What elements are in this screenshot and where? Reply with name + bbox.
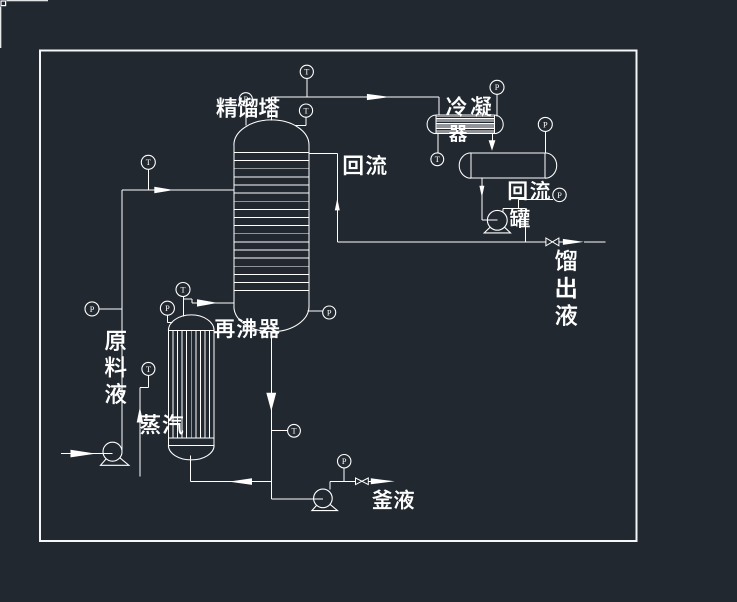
label 原料液 feed (105, 331, 127, 404)
wire: stem of column top P bubble (245, 106, 247, 126)
label 馏出液 distillate (555, 249, 577, 326)
svg-text:P: P (165, 304, 170, 313)
svg-text:T: T (180, 285, 185, 294)
instrument bubble P column bottom (323, 306, 336, 319)
wire: column bottom downcomer (271, 332, 323, 500)
arrow reflux up (335, 198, 340, 210)
svg-text:T: T (304, 68, 309, 77)
instrument bubble T downcomer (288, 424, 301, 437)
wire: steam supply line (140, 375, 149, 476)
label 回流 tank line1 (509, 181, 550, 201)
instrument bubble P column top (239, 93, 252, 106)
wire: condenser P bubble stem (496, 94, 498, 116)
instrument bubble P feed line (85, 302, 99, 316)
wire: reboiler vapor riser (182, 297, 184, 317)
wire: product P bubble lead (518, 200, 553, 209)
valve on distillate line (546, 238, 559, 246)
arrow steam up (137, 407, 143, 423)
svg-text:T: T (435, 155, 440, 164)
arrow distillate flow (563, 239, 584, 245)
wire: reflux pump suction stub (488, 219, 497, 221)
instrument bubble P condenser outlet (490, 80, 504, 94)
label 蒸汽 steam (140, 414, 183, 435)
distillation column vessel shell (234, 120, 309, 332)
instrument bubble T reboiler vapor (176, 283, 190, 297)
wire: bottoms discharge line (330, 481, 371, 489)
column weld seams and tray lines (234, 153, 309, 291)
wire: reboiler bottom outlet / circulation (191, 456, 272, 482)
wire: bottoms P bubble stem (343, 468, 345, 481)
label 回流 reflux (344, 155, 387, 176)
svg-text:P: P (543, 120, 548, 129)
wire: reboiler P bubble lead (167, 315, 172, 323)
reboiler tube sheets (168, 331, 214, 446)
svg-text:T: T (146, 158, 151, 167)
svg-text:P: P (557, 191, 562, 200)
wire: reflux pump discharge (503, 209, 525, 242)
arrow circulation left (229, 478, 252, 485)
wire: column bottom P bubble lead (308, 310, 323, 312)
instrument bubble T feed line (141, 155, 155, 169)
wire: feed P bubble lead (99, 308, 122, 310)
instrument bubble T overhead vapor (300, 65, 313, 78)
reflux tank shell (459, 153, 557, 178)
label 罐 tank line2 (510, 208, 530, 228)
arrow feed inlet (71, 450, 96, 458)
condenser shell body (427, 115, 503, 134)
wire: condensate drop to reflux tank (492, 134, 494, 142)
wire: lead of T bubble on column dome (295, 117, 306, 126)
svg-text:T: T (291, 427, 296, 436)
instrument bubble T column dome (299, 104, 312, 117)
instrument bubble P reflux tank (538, 117, 552, 131)
arrow feed into column (154, 187, 174, 193)
wire: feed inlet line (61, 453, 113, 455)
svg-text:P: P (495, 83, 500, 92)
instrument bubble P reboiler top (160, 301, 174, 315)
valve on bottoms line (356, 478, 369, 485)
wire: column top riser (271, 97, 273, 121)
label 器 condenser line2 (449, 125, 467, 142)
condenser tube hatch lines (436, 117, 494, 132)
arrow bottoms product (371, 478, 395, 484)
svg-text:P: P (342, 457, 347, 466)
instrument bubble T steam (142, 362, 155, 375)
reboiler shell (168, 315, 214, 460)
pump feed pump (101, 442, 129, 465)
wire: reboiler vapor return to column (183, 299, 234, 303)
svg-text:T: T (146, 365, 151, 374)
wire: feed riser 原料液 line (122, 190, 234, 452)
wire: condenser T bubble stem (437, 134, 439, 153)
wire: stem of T bubble on vapor line (306, 78, 308, 97)
reboiler tube lines (173, 331, 210, 438)
svg-text:P: P (90, 305, 95, 314)
svg-text:P: P (327, 308, 332, 317)
arrow bottoms down (266, 393, 276, 412)
wire: tank bottom outlet to reflux pump (482, 179, 497, 221)
wire: feed T bubble stem (147, 169, 149, 190)
wire: downcomer T bubble lead (271, 430, 287, 432)
wire: distillate product line (337, 241, 605, 243)
instrument bubble P bottoms line (338, 455, 351, 468)
instrument bubble T condensate (431, 153, 444, 166)
wire: overhead vapor line to condenser (272, 97, 439, 116)
wire: reflux return riser to column (309, 153, 337, 242)
wire: bottoms pump suction stub (314, 498, 323, 500)
crosshair cursor pickbox (1, 1, 48, 48)
label 釜液 bottoms (372, 489, 414, 509)
arrow condensate down (489, 140, 496, 151)
arrow vapor to column (197, 299, 218, 306)
pump reflux pump (484, 210, 510, 232)
instrument bubble P product line (553, 188, 566, 201)
wire: reflux tank P bubble stem (544, 131, 546, 153)
arrow vapor flow right (367, 94, 390, 100)
label 再沸器 reboiler (215, 318, 280, 338)
pump bottoms pump (312, 489, 338, 511)
label 冷凝 condenser line1 (446, 96, 491, 116)
drawing frame border (40, 51, 637, 542)
label 精馏塔 column (216, 97, 279, 118)
svg-text:T: T (303, 107, 308, 116)
arrow tank outlet down (479, 186, 484, 198)
